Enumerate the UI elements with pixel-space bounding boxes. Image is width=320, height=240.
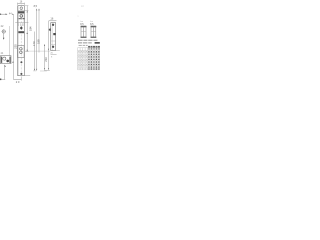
pair2 bottom arrows bbox=[44, 68, 49, 70]
left box left bar bbox=[1, 57, 2, 63]
line x4.5 to bottom bbox=[4, 67, 6, 80]
follower circle bbox=[20, 15, 23, 18]
side screw dot top bbox=[52, 24, 54, 26]
case bottom leader bbox=[15, 22, 28, 24]
side bolt block bbox=[53, 33, 55, 35]
left dim line y14 bbox=[0, 13, 7, 15]
dim line top bbox=[18, 3, 25, 5]
PZ circle lower bbox=[20, 51, 23, 54]
dim line x44.6 bbox=[44, 44, 46, 70]
latch dark band bbox=[18, 11, 24, 13]
screw hole top bbox=[20, 7, 23, 10]
left box right bar bbox=[9, 57, 10, 63]
svg-text:170: 170 bbox=[32, 41, 36, 46]
hatch ticks below case bbox=[19, 23, 24, 26]
assembly B dim line bbox=[90, 25, 96, 27]
faceplate top edge bbox=[18, 5, 25, 7]
extension line x9.7 bbox=[9, 26, 11, 56]
side strip inner bbox=[51, 23, 53, 51]
assembly B mid tick bbox=[91, 31, 96, 33]
PZ circle upper bbox=[20, 48, 23, 51]
svg-text:216: 216 bbox=[44, 57, 48, 62]
bottom dim speck bbox=[0, 79, 1, 81]
screw dot mid bbox=[20, 61, 22, 63]
side tick bbox=[51, 41, 56, 45]
table right column text speckles bbox=[88, 51, 99, 70]
PZ box bbox=[18, 46, 25, 58]
centerline bbox=[20, 5, 22, 77]
assembly B caps bbox=[91, 26, 97, 27]
dim line x36.7 bbox=[36, 9, 38, 71]
callout stem bbox=[3, 34, 5, 40]
faceplate bottom edge bbox=[18, 75, 25, 77]
side strip top edge bbox=[51, 22, 56, 24]
side strip right edge bbox=[55, 23, 57, 51]
assembly B bbox=[91, 26, 96, 37]
dim line x39 bbox=[38, 9, 40, 53]
pair bottom arrows bbox=[34, 69, 37, 71]
hole callout circle bbox=[2, 30, 5, 33]
faceplate inner edge bbox=[18, 6, 20, 76]
bottom dim line left bbox=[0, 79, 5, 81]
assembly A bbox=[81, 26, 86, 37]
table pre-header faint text bbox=[79, 45, 88, 46]
caption dark right blob bbox=[95, 42, 100, 44]
callout arrow bbox=[3, 38, 4, 40]
left dim arrow bbox=[6, 14, 8, 15]
assembly A mid tick bbox=[81, 31, 86, 33]
side dim line bbox=[49, 20, 57, 22]
svg-text:194: 194 bbox=[28, 26, 32, 31]
dim line x27 bbox=[25, 5, 29, 7]
bottom ticks bbox=[33, 70, 47, 72]
table left column dashes bbox=[78, 51, 87, 67]
svg-text:189: 189 bbox=[37, 39, 41, 44]
side strip bottom edge bbox=[51, 50, 56, 52]
caption rows under assemblies bbox=[78, 40, 97, 44]
side latch bbox=[49, 28, 51, 31]
screw dot bottom bbox=[20, 73, 22, 75]
side leaders bbox=[56, 50, 60, 52]
pair top arrows bbox=[36, 9, 39, 11]
assembly A dim line bbox=[81, 25, 87, 27]
svg-text:235: 235 bbox=[13, 44, 17, 49]
bottom leaders bbox=[24, 75, 30, 77]
faceplate left edge bbox=[17, 6, 19, 76]
left dim speck bbox=[0, 14, 1, 15]
dim line x34.4 bbox=[33, 32, 35, 71]
table grid bbox=[78, 48, 100, 70]
faceplate right edge bbox=[23, 6, 25, 76]
PZ leader bbox=[24, 50, 50, 52]
table header dark text bbox=[88, 46, 100, 48]
case hatch row bbox=[18, 18, 25, 20]
assembly A caps bbox=[81, 26, 87, 27]
svg-text:20: 20 bbox=[16, 80, 20, 84]
side screw dot bottom bbox=[52, 46, 54, 48]
dim line x48.6 bbox=[48, 21, 50, 70]
left box bbox=[1, 56, 12, 64]
case side edges bbox=[18, 13, 24, 22]
x27 arrows bbox=[27, 11, 28, 13]
box arrow below bbox=[4, 65, 6, 67]
table header shade bbox=[88, 48, 99, 49]
case line bbox=[18, 13, 25, 15]
leader y70.4 bbox=[44, 69, 50, 71]
bottom dim line mid bbox=[14, 79, 22, 81]
left box circle bbox=[3, 57, 6, 60]
latch diamond bbox=[20, 26, 23, 29]
deadbolt band bbox=[18, 31, 24, 33]
left box dot bbox=[6, 60, 9, 63]
case top leader bbox=[18, 10, 29, 12]
side strip left edge bbox=[50, 23, 52, 51]
extension line x13.6 bbox=[13, 14, 15, 79]
svg-text:8,5: 8,5 bbox=[34, 5, 38, 8]
